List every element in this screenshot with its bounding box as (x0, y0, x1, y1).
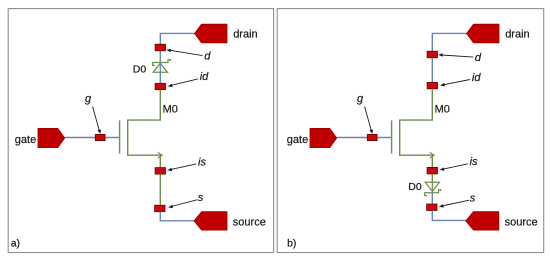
wire s to source-port b (blue) (432, 211, 466, 221)
port gate (38, 128, 65, 147)
terminal s b (427, 204, 437, 211)
wire is to s (green) (159, 174, 161, 205)
channel bar (399, 119, 401, 155)
svg-text:s: s (470, 192, 476, 204)
svg-text:drain: drain (233, 29, 257, 41)
terminal g b (367, 134, 377, 140)
panel b frame (277, 9, 544, 253)
svg-text:g: g (357, 93, 364, 105)
diode D0 b (schottky, pointing down) (425, 182, 441, 195)
svg-text:s: s (198, 192, 204, 204)
svg-text:drain: drain (505, 29, 529, 41)
svg-text:id: id (200, 71, 209, 83)
label is b with arrow (440, 156, 479, 171)
terminal id b (427, 82, 437, 88)
diode D0 (schottky, pointing up) (153, 60, 171, 73)
source lead with arrow (400, 155, 433, 167)
wire diode to s (blue) (431, 193, 433, 204)
svg-text:M0: M0 (163, 103, 178, 115)
label s b with arrow (439, 192, 476, 207)
label d with arrow (166, 49, 211, 63)
terminal d (155, 44, 165, 51)
svg-text:gate: gate (287, 134, 308, 146)
gate bar (391, 120, 393, 153)
label is with arrow (167, 156, 206, 171)
port source (194, 212, 227, 231)
wire d to id (blue) (431, 58, 433, 83)
channel bar (127, 119, 129, 155)
label d b with arrow (438, 52, 482, 64)
wire gate-port to gate (blue) (65, 137, 119, 139)
gate bar (119, 120, 121, 153)
svg-text:D0: D0 (133, 64, 147, 76)
wire drain-port to node d (blue) (160, 33, 195, 62)
svg-text:D0: D0 (408, 181, 422, 193)
label s with arrow (168, 192, 204, 208)
wire id to M0 drain (green) (128, 90, 160, 120)
wire s to source-port (blue) (160, 212, 194, 221)
port gate b (310, 128, 337, 147)
terminal d b (427, 51, 437, 58)
label id b with arrow (440, 72, 481, 87)
svg-text:b): b) (287, 238, 296, 250)
svg-text:source: source (233, 216, 266, 228)
wire id to M0 drain (green) (400, 89, 432, 120)
terminal is b (427, 167, 437, 174)
label g b with arrow (357, 93, 373, 134)
wire gate-port to gate b (blue) (337, 137, 391, 139)
panel a frame (8, 9, 273, 253)
source lead with arrow (128, 155, 161, 167)
svg-text:d: d (475, 52, 482, 64)
transistor M0 b (392, 119, 435, 167)
svg-text:a): a) (11, 238, 20, 250)
wire through diode D0 to id (blue) (159, 63, 161, 84)
terminal is (155, 168, 165, 175)
svg-text:id: id (472, 72, 481, 84)
terminal g (95, 134, 105, 140)
svg-text:g: g (85, 93, 92, 105)
svg-text:is: is (470, 156, 478, 168)
label id with arrow (168, 71, 210, 87)
wire drain-port to d (blue) (432, 33, 467, 51)
svg-text:is: is (198, 156, 206, 168)
terminal id (155, 83, 165, 89)
label g with arrow (85, 93, 101, 134)
svg-text:source: source (505, 216, 538, 228)
port drain b (467, 24, 499, 43)
transistor M0 (120, 119, 163, 167)
svg-text:d: d (204, 50, 211, 62)
port source b (466, 212, 499, 231)
svg-text:gate: gate (15, 134, 36, 146)
port drain (195, 24, 227, 43)
svg-text:M0: M0 (435, 103, 450, 115)
terminal s (155, 205, 165, 212)
wire is to diode (green) (431, 174, 433, 182)
